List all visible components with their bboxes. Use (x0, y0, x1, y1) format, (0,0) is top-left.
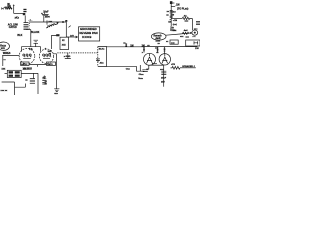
svg-text:WIRES: WIRES (3, 53, 11, 55)
svg-text:2V: 2V (45, 84, 48, 86)
wire V2 to ground line (54, 54, 57, 89)
output jack ellipse (192, 30, 198, 35)
svg-text:470: 470 (171, 63, 175, 66)
svg-text:xxx: xxx (62, 44, 67, 46)
capacitor C6 (161, 71, 166, 74)
wire down to pan (65, 22, 67, 37)
svg-text:10uF: 10uF (43, 12, 49, 14)
svg-text:xxx: xxx (186, 36, 190, 38)
coil L1 (30, 79, 35, 84)
junction blob (23, 13, 26, 15)
tube V1 label box (21, 62, 29, 65)
junction blob (56, 34, 59, 36)
svg-text:1/2xx: 1/2xx (23, 69, 29, 71)
svg-text:25uF: 25uF (161, 78, 167, 80)
svg-text:(TO PLxx): (TO PLxx) (177, 7, 188, 10)
svg-text:xx: xx (166, 15, 169, 17)
svg-text:.02x: .02x (99, 62, 104, 64)
svg-text:1M: 1M (168, 22, 171, 24)
wire arrow A (13, 6, 15, 14)
svg-text:xx: xx (49, 53, 52, 55)
tube V4 envelope (159, 54, 170, 65)
svg-text:xxx: xxx (54, 93, 58, 95)
wire chassis top right (107, 46, 145, 48)
reverb pan box (79, 27, 100, 41)
tube V2 label box (47, 62, 56, 65)
wire battery stub (35, 43, 37, 46)
wire grid (170, 19, 172, 21)
capacitor C4 (96, 59, 100, 63)
svg-text:BLACK: BLACK (31, 31, 40, 34)
svg-text:xxx: xxx (180, 36, 184, 38)
wire chassis bottom right (107, 65, 137, 67)
svg-text:xxxx: xxxx (156, 40, 161, 42)
svg-text:Oxx: Oxx (126, 69, 131, 71)
svg-text:xxx xx: xxx xx (1, 90, 8, 92)
tube V1 envelope (19, 48, 35, 64)
junction dot (190, 32, 192, 34)
svg-text:.1M: .1M (176, 4, 180, 7)
wire up w resistor R5 (125, 44, 127, 47)
wire B+ column (170, 4, 172, 26)
wire bottom left (2, 82, 26, 95)
amp chassis box (98, 47, 107, 67)
svg-text:x: x (142, 52, 144, 54)
wire bus (29, 21, 66, 23)
shield tap (65, 53, 71, 59)
svg-text:KNOB: KNOB (82, 35, 91, 39)
svg-text:(+): (+) (1, 8, 4, 10)
svg-text:BLKx: BLKx (99, 48, 105, 50)
tick (172, 2, 174, 4)
cluster B bars (42, 79, 46, 84)
svg-text:6AT6: 6AT6 (47, 63, 53, 66)
wire plate rail (145, 46, 198, 48)
plus mark (45, 48, 47, 50)
resistor Rd stub (164, 47, 166, 54)
wire M corner (52, 36, 60, 50)
wire tube bus (22, 47, 41, 52)
wire label boxes (29, 65, 47, 67)
svg-text:SPEAKER J: SPEAKER J (182, 65, 195, 68)
wire left drop (2, 56, 4, 66)
resistor Rc (157, 47, 159, 53)
svg-text:4x7: 4x7 (43, 76, 47, 79)
connector stack (24, 23, 29, 30)
tube V1 internals (23, 54, 25, 56)
coil L1 stub (33, 73, 35, 78)
svg-text:xx: xx (167, 11, 170, 13)
battery B1 (34, 40, 39, 43)
capacitor C2 plates (42, 14, 49, 15)
wire V3 bottom (149, 64, 164, 66)
svg-text:xx: xx (166, 41, 169, 43)
svg-text:x x: x x (193, 36, 197, 38)
svg-text:xxx: xxx (2, 69, 7, 71)
junction dot (62, 21, 64, 23)
tube V2 internals (43, 54, 45, 56)
tube V3 envelope (144, 53, 156, 65)
svg-text:AA: AA (184, 15, 188, 18)
svg-text:5um: 5um (138, 78, 143, 80)
wire jack out (166, 33, 192, 35)
wire stack down (26, 30, 31, 47)
svg-text:1/W: 1/W (195, 48, 199, 50)
small box left (170, 40, 178, 44)
resistor Rb (143, 47, 145, 53)
speaker jack box (186, 40, 200, 46)
wire top (14, 12, 23, 14)
svg-text:CATHD: CATHD (9, 26, 17, 29)
tick (3, 59, 6, 61)
component bars c7 (170, 11, 173, 14)
svg-text:Ohm: Ohm (139, 74, 144, 76)
wire speaker (180, 67, 196, 69)
wire T2 left (5, 72, 8, 74)
wire to V1 (2, 55, 19, 57)
cathode cap bars (152, 64, 157, 65)
resistor R13 (182, 17, 192, 19)
svg-text:xx: xx (156, 52, 159, 54)
svg-text:- x -: - x - (29, 20, 33, 22)
capacitor C5 (142, 70, 148, 72)
svg-text:450V: 450V (45, 15, 51, 18)
svg-text:25V: 25V (161, 82, 165, 84)
resistor R9 (171, 66, 180, 69)
wire under V3 (136, 65, 144, 71)
svg-text:Vxx: Vxx (172, 30, 177, 32)
wire to R13 (171, 17, 182, 19)
capacitor C2 plus (41, 13, 43, 15)
tube V2 envelope (39, 49, 53, 63)
svg-text:2hr: 2hr (172, 12, 176, 14)
tube V3 internals (147, 54, 153, 64)
svg-text:xxx: xxx (185, 21, 189, 23)
tick (197, 45, 199, 48)
stack dots (29, 23, 30, 28)
svg-text:xxx: xxx (194, 28, 198, 30)
svg-text:BLK: BLK (17, 34, 22, 37)
svg-text:xx: xx (158, 43, 161, 45)
footswitch jack ellipse (0, 42, 10, 50)
svg-text:xx: xx (62, 40, 65, 42)
svg-text:xxx: xxx (1, 47, 6, 50)
wire into pan (66, 36, 76, 38)
B+ terminal (170, 1, 173, 4)
svg-text:x GND: x GND (64, 56, 71, 58)
M box (60, 37, 69, 49)
capacitor C1 plates (23, 9, 26, 10)
svg-text:(xx): (xx) (173, 24, 177, 26)
svg-text:1M: 1M (130, 45, 133, 47)
wire right stub (171, 6, 175, 8)
tube V4 internals (162, 54, 168, 63)
wire T2 right (21, 73, 38, 94)
tick (46, 20, 48, 24)
connector box T2 (7, 70, 21, 77)
ground (54, 89, 59, 92)
svg-text:xKx: xKx (15, 17, 20, 20)
wire V4 cathode (163, 65, 165, 87)
shielded cable dashed (57, 52, 97, 54)
resistor R1 (5, 7, 12, 9)
resistor R14 (183, 32, 189, 34)
wire stack to cap (24, 15, 26, 22)
wire V3 down left (146, 65, 149, 69)
arrow tick (69, 26, 71, 28)
component bars r11 (170, 16, 173, 17)
corner blob (65, 20, 67, 22)
corner bars right (196, 22, 200, 25)
svg-text:DIY: DIY (70, 35, 74, 37)
wire down to jack (191, 18, 193, 30)
svg-text:xx: xx (25, 80, 28, 82)
wire branch (43, 16, 45, 22)
reverb jack ellipse (151, 33, 166, 40)
svg-text:4x4: 4x4 (184, 29, 188, 32)
svg-text:6AT6: 6AT6 (21, 63, 27, 66)
svg-text:+1M: +1M (173, 20, 177, 22)
